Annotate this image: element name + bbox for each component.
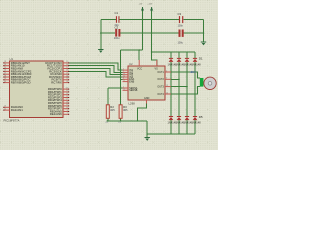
svg-text:ENB: ENB (129, 81, 134, 84)
svg-text:+5V: +5V (139, 3, 143, 5)
wire: top cap row C1 from gnd line to +5 line (101, 19, 116, 21)
svg-text:29: 29 (66, 104, 68, 106)
svg-text:13: 13 (4, 106, 6, 108)
MCU right pin stubs (63, 63, 69, 114)
capacitor C4 (electrolytic) (178, 30, 184, 45)
wire: +5V vertical from arrow down to rail (142, 11, 144, 50)
svg-text:39: 39 (4, 78, 6, 80)
wire: left ground vertical (100, 20, 102, 50)
svg-text:+12V: +12V (147, 3, 153, 5)
svg-text:9: 9 (67, 113, 68, 115)
svg-text:20: 20 (66, 90, 68, 92)
wire: diode column 1 (170, 52, 172, 134)
svg-text:19: 19 (66, 87, 68, 89)
MCU pin numbers left (4, 61, 6, 110)
svg-text:18: 18 (66, 70, 68, 72)
svg-text:33: 33 (4, 61, 6, 63)
wire: center ground vertical (146, 121, 148, 137)
svg-text:L298: L298 (129, 102, 136, 106)
wire: bottom ground rail (147, 133, 195, 135)
stepper motor M1 (190, 71, 217, 90)
diode D6 (bottom row, col2) (176, 116, 186, 125)
capacitor C2 (electrolytic) (114, 25, 121, 40)
svg-text:1N4148: 1N4148 (192, 62, 202, 66)
svg-text:1N4148: 1N4148 (192, 121, 202, 125)
diode D4 (top row, col4) (192, 58, 202, 66)
svg-text:C3: C3 (178, 12, 182, 16)
svg-text:D1: D1 (199, 57, 203, 61)
junction dots (100, 19, 204, 135)
svg-text:RE1/AN6: RE1/AN6 (50, 112, 62, 116)
svg-text:24: 24 (66, 75, 68, 77)
diode D2 (top row, col2) (176, 58, 186, 66)
wire: diode column 2 (178, 52, 180, 134)
wire: +12V jog to U2 VS pin (152, 52, 157, 66)
wire: OUT3 to column3 (171, 86, 187, 88)
wire: second cap row C2 (101, 32, 115, 34)
wire: row2 continues through C4 to right gnd (152, 32, 179, 34)
svg-text:U2: U2 (129, 62, 133, 66)
svg-text:RC7/RX: RC7/RX (51, 81, 62, 85)
svg-text:15: 15 (123, 89, 125, 91)
svg-text:OUT1: OUT1 (157, 71, 164, 74)
svg-text:GND: GND (144, 97, 150, 100)
svg-text:38: 38 (4, 75, 6, 77)
svg-text:30: 30 (66, 107, 68, 109)
power +12V arrow (147, 3, 153, 11)
wire: OUT2 to column2 (171, 78, 179, 80)
svg-text:RB7/KBI3/PGD: RB7/KBI3/PGD (11, 81, 31, 85)
MCU U1 PIC16F877A (4, 57, 64, 123)
svg-text:+88.0: +88.0 (190, 71, 197, 74)
svg-text:26: 26 (66, 81, 68, 83)
power +5V arrow (139, 3, 145, 11)
svg-text:28: 28 (66, 101, 68, 103)
svg-text:14: 14 (166, 92, 168, 94)
U2 right pin stubs (165, 72, 171, 94)
svg-text:13: 13 (166, 85, 168, 87)
diode D1 (top row, col1) (168, 58, 178, 66)
svg-text:36: 36 (4, 70, 6, 72)
wire: drop to U2 VCC pin (138, 50, 140, 60)
diode D7 (bottom row, col3) (184, 116, 194, 125)
U2 left pin stubs (123, 70, 129, 90)
svg-text:21: 21 (66, 93, 68, 95)
MCU pin numbers right (66, 61, 68, 114)
MCU pin labels left (11, 61, 32, 112)
svg-text:SENSB: SENSB (129, 89, 138, 92)
svg-text:D5: D5 (199, 115, 203, 119)
svg-text:23: 23 (66, 73, 68, 75)
diode D8 (bottom row, col4) (192, 116, 202, 125)
capacitor C1 (115, 11, 120, 27)
wire: OUT4 to motor bottom (171, 87, 200, 95)
ground (bottom center) (145, 138, 150, 141)
svg-text:11: 11 (123, 80, 125, 82)
svg-text:OUT3: OUT3 (157, 86, 164, 89)
wire: OUT1 to motor top (171, 72, 200, 78)
wire: row1 continues right through C3 to right gnd (143, 19, 179, 21)
ground (top right) (201, 42, 206, 45)
driver U2 L298 (128, 62, 165, 106)
svg-text:27: 27 (66, 99, 68, 101)
resistor R3 (118, 105, 128, 124)
svg-text:16: 16 (66, 64, 68, 66)
U2 top pin stubs (139, 60, 157, 66)
svg-text:0R5: 0R5 (123, 109, 128, 112)
ground (left, under C bank) (98, 50, 103, 53)
svg-text:C2: C2 (115, 25, 119, 29)
MCU left pin stubs RB0-RB7 (4, 63, 10, 110)
svg-text:PIC16F877A: PIC16F877A (4, 119, 20, 123)
wire: +5/ENA vertical down to R3 (119, 50, 121, 105)
svg-text:22: 22 (66, 96, 68, 98)
wire: MCU RC2 to U2 IN3 (69, 69, 123, 75)
svg-text:3: 3 (166, 78, 167, 80)
svg-text:C1: C1 (115, 11, 119, 15)
wire: MCU RC0 to U2 IN1 (69, 63, 123, 70)
wire: resistor bottoms to ground (107, 120, 148, 122)
svg-text:0.5: 0.5 (118, 122, 121, 124)
wire: U2 GND pin routing down to resistor net (138, 104, 147, 121)
svg-text:RA1/AN1: RA1/AN1 (11, 108, 23, 112)
wire: +12V vertical from arrow down (151, 11, 153, 52)
resistor R2 (106, 105, 116, 124)
svg-text:25: 25 (66, 78, 68, 80)
svg-text:0.5: 0.5 (106, 122, 109, 124)
svg-text:8: 8 (67, 110, 68, 112)
svg-text:14: 14 (4, 108, 6, 110)
svg-text:37: 37 (4, 73, 6, 75)
svg-text:100n: 100n (178, 25, 184, 28)
svg-text:0R5: 0R5 (110, 109, 115, 112)
svg-text:VCC: VCC (137, 68, 142, 71)
diode D3 (top row, col3) (184, 58, 194, 66)
U2 pin labels (129, 68, 158, 101)
svg-text:34: 34 (4, 64, 6, 66)
wire: +12V diode top rail (152, 51, 195, 53)
svg-text:100u: 100u (114, 37, 120, 40)
wire: ENA pin connects to +5 vertical (120, 78, 122, 80)
wire: diode column 4 (194, 52, 196, 134)
U2 pin numbers left (123, 69, 125, 91)
wire: MCU RC1 to U2 IN2 (69, 66, 123, 73)
MCU pin labels right (45, 61, 62, 116)
svg-text:2: 2 (166, 70, 167, 72)
wire: MCU RC3 to U2 IN4 (69, 71, 123, 77)
diode D5 (bottom row, col1) (168, 116, 178, 125)
svg-text:100u: 100u (178, 42, 184, 45)
svg-text:40: 40 (4, 81, 6, 83)
U2 bottom pin stub GND (146, 100, 148, 104)
svg-text:OUT2: OUT2 (157, 78, 164, 81)
svg-text:OUT4: OUT4 (157, 93, 164, 96)
wire: +5V horizontal rail to U2 VCC feed (120, 49, 142, 51)
wire: diode column 3 (186, 52, 188, 134)
svg-text:17: 17 (66, 67, 68, 69)
U2 pin numbers right (166, 70, 168, 94)
svg-text:35: 35 (4, 67, 6, 69)
capacitor C3 (178, 12, 184, 28)
svg-text:15: 15 (66, 61, 68, 63)
wire: right gnd vertical (203, 20, 205, 42)
wire: SENSA to R2 (108, 87, 123, 89)
